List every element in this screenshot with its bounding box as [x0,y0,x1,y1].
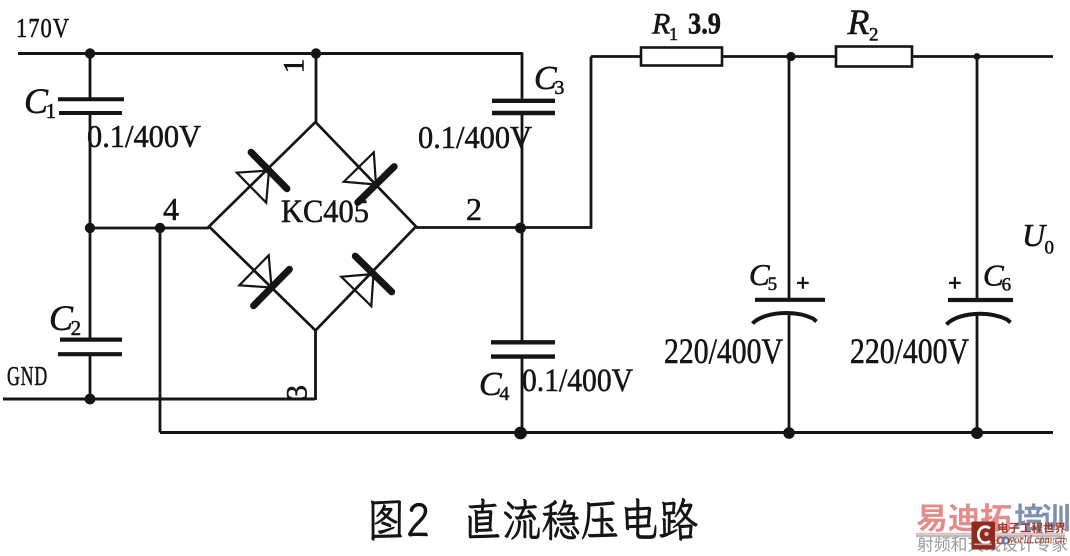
svg-text:3.9: 3.9 [688,6,721,41]
svg-text:220/400V: 220/400V [664,331,783,371]
svg-text:0.1/400V: 0.1/400V [522,363,633,399]
svg-text:3: 3 [554,77,564,99]
svg-text:220/400V: 220/400V [850,331,969,371]
svg-text:0: 0 [1045,238,1055,259]
svg-text:2: 2 [71,316,82,340]
svg-text:1: 1 [278,59,311,74]
svg-text:2: 2 [869,25,879,46]
svg-text:1: 1 [46,99,57,123]
svg-text:0.1/400V: 0.1/400V [87,118,201,154]
svg-text:170V: 170V [16,13,70,43]
svg-text:3: 3 [281,385,314,400]
svg-text:1: 1 [669,24,678,44]
svg-text:6: 6 [1002,275,1012,296]
svg-text:R: R [847,2,870,42]
svg-text:4: 4 [499,383,509,405]
svg-text:+: + [796,271,810,297]
svg-text:+: + [948,271,962,297]
svg-text:R: R [651,8,670,41]
svg-text:world.com.cn: world.com.cn [1007,532,1065,547]
svg-text:U: U [1022,217,1047,253]
svg-text:2: 2 [466,191,482,227]
svg-text:0.1/400V: 0.1/400V [418,119,532,155]
svg-text:5: 5 [768,274,778,295]
svg-text:KC405: KC405 [281,194,369,230]
svg-text:GND: GND [7,361,48,391]
svg-text:4: 4 [163,191,179,227]
